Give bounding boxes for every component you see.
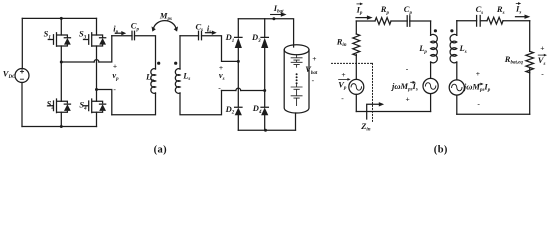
svg-text:(b): (b) (434, 145, 448, 156)
wire S2 leg (60, 62, 62, 127)
wire S1 leg (60, 18, 62, 62)
node Lp phase dot (157, 62, 160, 65)
source VDC (15, 69, 29, 83)
node vs+ junction (237, 60, 240, 63)
current arrow is (206, 32, 213, 34)
node bottom rail dot (264, 129, 267, 132)
capacitor Cp (132, 31, 135, 40)
svg-text:+: + (341, 70, 345, 79)
current arrow Is-b (516, 16, 526, 18)
node Ls-b dot (450, 29, 453, 32)
svg-text:+: + (476, 69, 480, 78)
wire S3 leg (96, 18, 98, 62)
capacitor Cs-b (477, 16, 481, 27)
svg-text:+: + (406, 95, 410, 104)
wire vp- (97, 90, 112, 115)
wire hop over leg1 (236, 88, 241, 90)
transistor S1 (48, 33, 71, 47)
wire Ls-b to source2 (456, 62, 458, 80)
impedance Zin arrow (367, 104, 380, 119)
node vs- junction (263, 89, 266, 92)
wire rectifier bottom rail (238, 129, 295, 131)
wire secondary top (180, 35, 199, 37)
wire Lp bottom (112, 93, 156, 115)
wire Rin to Vp (355, 55, 357, 80)
wire loop1 bottom (356, 111, 430, 113)
inductor Ls-b (450, 34, 457, 62)
diode D1 (235, 19, 242, 62)
wire loop2 left branch (456, 21, 458, 36)
diode D2 (235, 61, 242, 130)
transistor S4 (84, 99, 107, 113)
wire left branch to Rin (355, 21, 357, 34)
diode D3 (261, 19, 268, 91)
source jwMpsIs (423, 78, 438, 93)
wire Cp to Lp (135, 36, 156, 69)
wire Lp-b to source1 (430, 62, 432, 78)
resistor Rbat,eq (526, 51, 534, 72)
inductor Lp-b (431, 34, 438, 62)
node top rail dot (272, 17, 275, 20)
wire source1 to bottom (430, 94, 432, 112)
current arrow Ibat (271, 14, 282, 16)
wire loop2 bottom (457, 113, 530, 115)
resistor Rs (487, 17, 503, 24)
transistor S3 (84, 33, 107, 47)
svg-text:+: + (312, 54, 316, 63)
node top rail junction (60, 17, 63, 20)
impedance Zin dotted boundary (332, 63, 373, 122)
wire S4 leg (96, 62, 98, 127)
source Vp (349, 79, 364, 94)
wire right branch top (430, 21, 432, 35)
wire left rail upper (21, 18, 23, 68)
wire vs- with hop (222, 90, 265, 92)
mutual arrow Mps (153, 21, 176, 30)
battery cylinder (284, 50, 309, 113)
wire source2 to bottom (456, 95, 458, 114)
wire Cs to rectifier (202, 36, 239, 62)
svg-text:(a): (a) (154, 145, 168, 156)
wire bottom rail (22, 126, 97, 128)
inductor Ls (179, 36, 181, 69)
node Lp-b dot (434, 29, 437, 32)
node bottom rail junction (60, 125, 63, 128)
wire vp+ with hop (61, 36, 112, 62)
svg-text:+: + (113, 61, 117, 70)
resistor Rp (375, 18, 391, 25)
node right leg tap (95, 88, 98, 91)
wire hop over right leg (94, 60, 99, 62)
wire primary top (112, 35, 132, 37)
wire battery bottom (295, 113, 297, 130)
battery cells (291, 55, 302, 106)
capacitor Cp-b (407, 16, 410, 26)
current arrow Ip-b (356, 17, 368, 19)
node Ls phase dot (174, 62, 177, 65)
wire top rail (22, 17, 96, 19)
diode D4 (261, 91, 268, 131)
wire left rail lower (21, 83, 23, 127)
wire loop2 top (457, 20, 530, 22)
wire rectifier top rail (238, 19, 293, 47)
inductor Lp (151, 69, 156, 94)
wire Ls bottom (180, 91, 222, 115)
wire Vp to bottom (355, 94, 357, 111)
wire right branch (529, 21, 531, 52)
svg-text:+: + (540, 44, 544, 53)
current arrow ip (115, 32, 122, 34)
resistor Rin (353, 34, 360, 56)
source jwMpsIp (449, 80, 464, 95)
wire loop1 top (356, 20, 430, 22)
capacitor Cs (199, 31, 202, 40)
transistor S2 (48, 99, 71, 113)
node left leg midpoint (60, 61, 63, 64)
